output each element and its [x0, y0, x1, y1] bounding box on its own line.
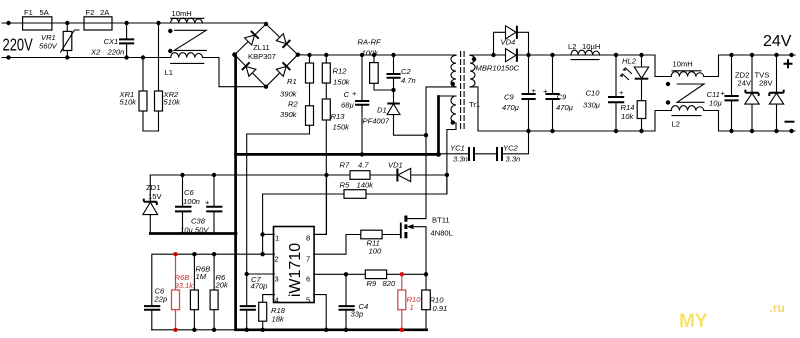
transistor BT11 4N80L mosfet	[401, 216, 453, 275]
wire secondary top rail	[470, 53, 655, 57]
wire top input rail	[2, 22, 266, 24]
svg-text:MY: MY	[679, 311, 708, 332]
resistor XR1 510k	[119, 55, 159, 131]
svg-text:4.7: 4.7	[358, 161, 369, 170]
resistor R7 4.7	[340, 161, 371, 180]
resistor R14 10k	[621, 101, 646, 131]
node 24V output label	[763, 33, 792, 50]
wire bottom input rail	[2, 58, 266, 87]
svg-text:22p: 22p	[154, 295, 168, 304]
svg-text:R5: R5	[340, 181, 350, 190]
capacitor CX1 X2 220n	[90, 21, 134, 60]
svg-text:VD4: VD4	[501, 37, 516, 46]
svg-text:KBP307: KBP307	[248, 52, 276, 61]
svg-text:C9: C9	[557, 93, 567, 102]
wire thick bottom rail	[236, 328, 427, 331]
zener ZD1 15V	[143, 175, 163, 234]
tvs diode TVS 28V	[755, 53, 784, 133]
svg-text:C6: C6	[184, 188, 194, 197]
svg-text:150k: 150k	[333, 123, 351, 132]
svg-text:8: 8	[306, 234, 310, 243]
svg-text:HL2: HL2	[622, 57, 637, 66]
svg-text:6: 6	[306, 275, 310, 284]
svg-text:33p: 33p	[351, 310, 364, 319]
svg-text:PF4007: PF4007	[363, 117, 390, 126]
svg-text:5: 5	[306, 296, 310, 305]
svg-text:18k: 18k	[272, 315, 285, 324]
diode D1 PF4007 clamp	[363, 90, 429, 137]
wire thick primary GND bus horizontal	[236, 153, 439, 156]
svg-text:+: +	[205, 198, 210, 207]
resistor R9 820	[365, 270, 396, 288]
capacitor YC1 3.3n	[439, 144, 498, 164]
zener ZD2 24V	[735, 53, 759, 133]
diode bridge arm bottom-right	[276, 67, 286, 77]
svg-text:470µ: 470µ	[502, 103, 520, 112]
svg-text:10mH: 10mH	[673, 60, 693, 69]
wire thin bottom rail left	[152, 329, 236, 331]
svg-text:+: +	[543, 87, 548, 96]
wire secondary bottom rail	[470, 87, 655, 133]
svg-text:RA-RF: RA-RF	[358, 38, 382, 47]
transformer Tr1 secondary winding	[469, 55, 480, 109]
wire VCC rail y175	[150, 173, 447, 177]
svg-text:1M: 1M	[196, 272, 207, 281]
svg-text:220n: 220n	[107, 48, 125, 57]
svg-text:3.3n: 3.3n	[506, 155, 521, 164]
watermark	[679, 301, 785, 332]
svg-text:+: +	[352, 89, 357, 98]
wire pin8 VCC net	[314, 175, 327, 234]
capacitor C10 330u	[583, 55, 624, 131]
diode VD1	[388, 161, 411, 182]
svg-text:24V: 24V	[763, 33, 792, 50]
svg-text:3.3n: 3.3n	[453, 155, 468, 164]
capacitor C9 470u first	[502, 55, 537, 131]
wire pin3 net with R2 sense	[245, 272, 275, 332]
varistor VR1 560V	[39, 21, 79, 60]
svg-text:100: 100	[369, 247, 382, 256]
wire aux top to GND bus	[436, 96, 456, 157]
diode VD4 MBR10150C dual rectifier	[476, 26, 529, 73]
svg-text:C10: C10	[586, 89, 601, 98]
wire pin2 net	[152, 252, 275, 330]
svg-text:.ru: .ru	[770, 301, 785, 315]
svg-text:BT11: BT11	[432, 216, 450, 225]
diode bridge arm top-right	[276, 34, 286, 44]
capacitor C6 100n	[175, 175, 200, 234]
svg-text:330µ: 330µ	[583, 101, 601, 110]
svg-text:140k: 140k	[357, 181, 375, 190]
svg-text:7: 7	[306, 255, 310, 264]
svg-text:R12: R12	[333, 67, 348, 76]
resistor R6 20k	[210, 254, 229, 332]
resistor R5 140k	[340, 181, 375, 199]
svg-text:3: 3	[275, 275, 279, 284]
transformer Tr1 core	[461, 52, 465, 130]
svg-text:93.1k: 93.1k	[175, 281, 195, 290]
diode bridge arm bottom-left	[246, 67, 256, 77]
resistor R13 150k	[314, 99, 351, 234]
svg-text:100k: 100k	[362, 49, 380, 58]
wire aux bottom to VD1 node	[445, 123, 456, 194]
svg-text:R1: R1	[287, 77, 297, 86]
svg-text:1: 1	[410, 303, 414, 312]
svg-text:150k: 150k	[333, 78, 351, 87]
svg-text:F2: F2	[86, 8, 95, 17]
svg-text:R9: R9	[367, 279, 377, 288]
svg-text:L2: L2	[568, 42, 576, 51]
wire pin5 net	[314, 295, 329, 332]
capacitor C4 33p	[339, 274, 369, 332]
svg-text:YC2: YC2	[503, 144, 519, 153]
svg-text:X2: X2	[90, 48, 101, 57]
transformer Tr1 primary winding	[451, 55, 456, 87]
svg-text:390k: 390k	[280, 90, 298, 99]
node input terminal bottom	[6, 55, 10, 59]
wire thick GND segment y233.5	[150, 232, 236, 235]
capacitor C9 470u second	[543, 55, 574, 131]
svg-text:YC1: YC1	[450, 144, 465, 153]
capacitor C7 470p	[240, 275, 268, 310]
wire R5 line y194	[260, 175, 447, 256]
svg-text:ZL11: ZL11	[253, 43, 270, 52]
svg-text:R13: R13	[331, 112, 346, 121]
wire thick primary GND bus vertical	[234, 56, 237, 330]
svg-text:2A: 2A	[100, 8, 110, 17]
resistor R12 150k	[322, 55, 350, 99]
svg-text:390k: 390k	[280, 110, 298, 119]
svg-text:D1: D1	[377, 106, 387, 115]
svg-text:10mH: 10mH	[172, 9, 192, 18]
svg-text:15V: 15V	[148, 192, 162, 201]
svg-text:CX1: CX1	[104, 37, 119, 46]
svg-text:28V: 28V	[759, 79, 773, 88]
svg-text:5A: 5A	[40, 8, 50, 17]
svg-text:+: +	[721, 89, 726, 98]
capacitor YC2 3.3n	[497, 131, 529, 164]
inductor L1 10mH common-mode choke	[165, 9, 207, 77]
resistor R2 390k	[247, 100, 314, 275]
svg-text:0.91: 0.91	[433, 304, 448, 313]
resistor R10 1 red	[398, 274, 421, 332]
svg-text:510k: 510k	[120, 98, 138, 107]
svg-text:L1: L1	[165, 68, 173, 77]
capacitor C+ 68u bulk	[341, 55, 369, 157]
resistor RA-RF 100k snubber	[358, 38, 394, 91]
resistor R10 0.91	[422, 274, 448, 330]
svg-text:4.7n: 4.7n	[401, 76, 416, 85]
svg-text:+: +	[532, 86, 537, 95]
diode bridge arm top-left	[245, 35, 255, 45]
svg-text:4N80L: 4N80L	[431, 228, 453, 237]
svg-text:10µ 50V: 10µ 50V	[180, 226, 209, 235]
svg-text:10µH: 10µH	[582, 42, 600, 51]
inductor L2 10uH	[568, 42, 600, 60]
node 220V input label	[3, 36, 34, 56]
resistor XR2 510k	[155, 21, 182, 131]
svg-text:220V: 220V	[3, 36, 34, 56]
wire pin7 gate net	[314, 235, 401, 255]
svg-text:iW1710: iW1710	[287, 243, 304, 297]
IC U1 iW1710	[274, 227, 315, 305]
capacitor C38 10u 50V	[180, 175, 222, 235]
svg-text:10µ: 10µ	[709, 99, 722, 108]
svg-text:VD1: VD1	[388, 161, 403, 170]
svg-text:R7: R7	[340, 161, 350, 170]
wire pin1 stub	[263, 233, 275, 235]
node input terminal top	[6, 21, 10, 25]
svg-text:MBR10150C: MBR10150C	[476, 64, 520, 73]
wire pin6 net	[314, 272, 429, 276]
svg-text:R2: R2	[288, 100, 298, 109]
svg-text:R14: R14	[621, 103, 635, 112]
capacitor C6 22p	[144, 287, 167, 310]
svg-text:560V: 560V	[39, 42, 58, 51]
svg-text:1: 1	[275, 234, 279, 243]
svg-text:+: +	[619, 88, 624, 97]
capacitor C2 4.7n snubber	[387, 55, 416, 92]
resistor R1 390k	[280, 55, 314, 106]
bridge rectifier ZL11 KBP307	[232, 22, 300, 89]
svg-text:470p: 470p	[251, 282, 268, 291]
svg-text:470µ: 470µ	[556, 103, 574, 112]
inductor L2 output 10mH common-mode choke	[655, 55, 795, 131]
svg-text:4: 4	[275, 296, 279, 305]
wire primary bottom to drain node	[426, 87, 456, 219]
svg-text:24V: 24V	[738, 79, 752, 88]
svg-text:C9: C9	[504, 93, 514, 102]
svg-text:510k: 510k	[164, 98, 182, 107]
fuse F1 5A	[23, 8, 52, 30]
svg-text:2: 2	[275, 255, 279, 264]
resistor R6B 1M	[190, 254, 210, 332]
svg-text:C38: C38	[191, 217, 206, 226]
svg-text:C2: C2	[401, 67, 411, 76]
svg-text:20k: 20k	[215, 281, 229, 290]
wire pin4 net	[261, 295, 275, 332]
node output terminal minus	[785, 122, 795, 134]
svg-text:F1: F1	[24, 8, 33, 17]
capacitor C11 10u	[707, 53, 739, 133]
svg-text:ZD1: ZD1	[146, 183, 160, 192]
svg-text:C: C	[344, 90, 350, 99]
resistor R11 100	[361, 230, 382, 255]
svg-text:820: 820	[383, 279, 396, 288]
svg-text:68µ: 68µ	[341, 101, 354, 110]
resistor R18 18k	[259, 302, 286, 323]
svg-text:10k: 10k	[621, 112, 634, 121]
svg-text:100n: 100n	[183, 197, 200, 206]
node output terminal plus	[784, 53, 794, 69]
wire DC plus rail	[298, 53, 456, 57]
svg-text:L2: L2	[672, 120, 680, 129]
led HL2	[619, 55, 648, 101]
transformer Tr1 aux winding	[451, 96, 456, 125]
resistor R6B 93.1k red	[172, 252, 195, 332]
fuse F2 2A	[84, 8, 112, 30]
